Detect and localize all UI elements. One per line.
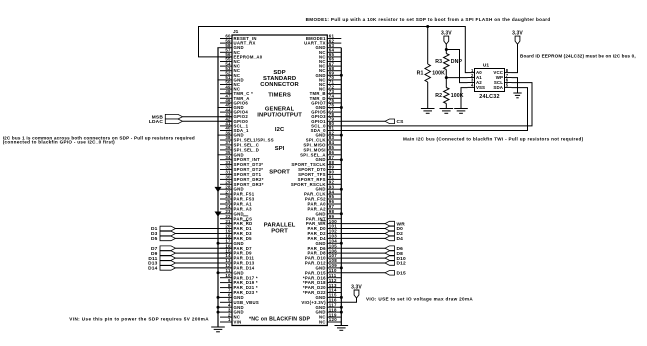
EEPROM pin 8 VCC: [493, 68, 511, 75]
pin 29 SPORT_DR3* (left): [220, 180, 264, 187]
EEPROM pin 3 A2: [468, 78, 483, 85]
off-page flag D4: [385, 236, 403, 242]
ground (right bus): [335, 326, 349, 331]
pin 7 PAR_D23 * (left): [220, 288, 258, 295]
off-page flag D5: [151, 236, 176, 242]
svg-text:100K: 100K: [432, 71, 445, 77]
ground arrow on left GND bus row 38: [215, 212, 222, 217]
pin 82 GND (right): [315, 130, 341, 137]
junction on right GND bus row 22: [340, 134, 343, 137]
pin 86 SPI_SEL_A (right): [300, 150, 341, 157]
pin 119 NC (right): [319, 312, 341, 319]
EEPROM U1 24LC32 body: [475, 62, 505, 100]
pin 23 GND (left): [217, 209, 243, 216]
wire D9 to connector: [176, 252, 233, 254]
pin 112 *PAR_D18 (right): [303, 278, 341, 285]
ground (EEPROM VSS): [454, 109, 468, 114]
svg-text:120: 120: [329, 317, 337, 322]
wire: 3.3V to R3 / A2 branch: [445, 44, 447, 53]
pin 97 PAR_A2 (right): [308, 204, 342, 211]
ground (left bus): [211, 327, 225, 332]
pin 39 GND (left): [217, 130, 243, 137]
pin 1 VIN (left): [220, 317, 242, 324]
junction: R3/R2/A1 node: [445, 76, 448, 79]
pin 106 PAR_D8 (right): [308, 248, 342, 255]
pin 11 GND (left): [217, 268, 243, 275]
pin 38 SPI_SEL1/SPI_SS (left): [220, 135, 274, 142]
pin 103 PAR_D4 (right): [308, 234, 342, 241]
svg-text:CS: CS: [397, 119, 405, 125]
pin 9 PAR_D19 * (left): [220, 278, 258, 285]
pin 13 PAR_D13 (left): [220, 258, 255, 265]
wire MSB to pin 43 GPIO2: [183, 116, 233, 118]
off-page flag D11: [148, 256, 175, 262]
pin 22 PAR_CS (left): [220, 214, 252, 221]
wire D2 to connector: [341, 233, 385, 235]
pin 68 NC (right): [319, 66, 341, 73]
wire D6 to connector: [341, 247, 385, 249]
pin 67 NC (right): [319, 61, 341, 68]
svg-text:BMODE1: Pull up with a 10K res: BMODE1: Pull up with a 10K resistor to s…: [306, 17, 551, 22]
resistor R1 100K: [417, 64, 445, 82]
pin 26 PAR_FS3 (left): [220, 194, 255, 201]
pin 91 SPORT_RFS (right): [298, 175, 342, 182]
off-page flag D8: [385, 251, 403, 257]
off-page flag D10: [385, 256, 406, 262]
wire WR to connector: [341, 223, 385, 225]
pin 58 GND (left): [217, 43, 243, 50]
junction on left GND bus row 44: [217, 242, 220, 245]
pin 111 *PAR_D16 (right): [303, 273, 341, 280]
off-page flag D0: [385, 226, 403, 232]
junction on right GND bus row 57: [340, 306, 343, 309]
svg-text:D12: D12: [397, 261, 407, 267]
svg-text:1: 1: [228, 317, 231, 322]
off-page flag MSB: [152, 114, 183, 120]
off-page flag D13: [148, 261, 175, 267]
svg-text:D4: D4: [397, 236, 404, 242]
pin 50 NC (left): [220, 80, 240, 87]
junction on right GND bus row 55: [340, 296, 343, 299]
pin 10 PAR_D17 * (left): [220, 273, 258, 280]
junction on right GND bus row 9: [340, 74, 343, 77]
pin 45 GND (left): [217, 103, 243, 110]
pin 76 GND (right): [315, 103, 341, 110]
wire: R1 bottom to ground: [427, 82, 429, 109]
junction on right GND bus row 38: [340, 212, 343, 215]
pin 83 SPI_CLK (right): [306, 135, 342, 142]
pin 73 TMR_B (right): [310, 89, 342, 96]
pin 33 SPORT_DT3* (left): [220, 160, 263, 167]
wire D0 to connector: [341, 228, 385, 230]
svg-text:PORT: PORT: [271, 229, 288, 235]
pin 77 GPIO5 (right): [311, 107, 341, 114]
wire D5 to connector: [176, 237, 233, 239]
pin 35 GND (left): [217, 150, 243, 157]
junction on right GND bus row 44: [340, 242, 343, 245]
ground (R1): [421, 109, 435, 114]
pin 56 EEPROM_A0 (left): [220, 52, 263, 59]
pin 8 PAR_D21 * (left): [220, 283, 258, 290]
wire: EEPROM WP to ground: [512, 78, 518, 93]
pin 80 SCL_0 (right): [311, 121, 341, 128]
pin 52 NC (left): [220, 71, 240, 78]
svg-text:CONNECTOR: CONNECTOR: [260, 82, 299, 88]
pin 115 GND (right): [315, 293, 341, 300]
pin 96 PAR_A0 (right): [308, 199, 342, 206]
wire D15 to connector: [341, 272, 385, 274]
wire D14 to connector: [176, 267, 233, 269]
pin 72 NC (right): [319, 84, 341, 91]
connector J1 SDP STANDARD CONNECTOR body: [232, 29, 327, 325]
off-page flag LDAC: [149, 119, 183, 125]
pin 17 GND (left): [217, 239, 243, 246]
pin 30 SPORT_DR2* (left): [220, 175, 264, 182]
svg-text:(connected to blackfin GPIO -: (connected to blackfin GPIO - use I2C_0 …: [3, 140, 115, 145]
pin 101 PAR_D0 (right): [308, 224, 342, 231]
wire: 3.3V to EEPROM VCC: [512, 44, 518, 73]
ground (R2): [440, 109, 454, 114]
svg-text:SPI: SPI: [275, 146, 285, 152]
pin 12 PAR_D14 (left): [220, 263, 255, 270]
wire D1 to connector: [176, 228, 233, 230]
wire D13 to connector: [176, 262, 233, 264]
junction on left GND bus row 57: [217, 306, 220, 309]
svg-text:U1: U1: [483, 62, 489, 68]
svg-text:SDA: SDA: [493, 85, 503, 90]
junction on right GND bus row 16: [340, 106, 343, 109]
pin 2 NC (left): [220, 312, 240, 319]
svg-text:R3: R3: [435, 59, 442, 65]
pin 36 SPI_SEL_D (left): [220, 145, 259, 152]
off-page flag CS: [385, 119, 404, 125]
wire D11 to connector: [176, 257, 233, 259]
ground arrow on left GND bus row 33: [215, 187, 222, 192]
EEPROM pin 7 WP: [496, 73, 512, 80]
off-page flag D3: [151, 231, 176, 237]
off-page flag D12: [385, 261, 406, 267]
pin 65 NC (right): [319, 52, 341, 59]
svg-text:Main I2C bus (Connected to bla: Main I2C bus (Connected to blackfin TWI …: [403, 137, 584, 142]
EEPROM pin 1 A0: [468, 68, 483, 75]
pin 90 SPORT_TFS (right): [298, 170, 341, 177]
pin 60 RESET_IN (left): [220, 34, 257, 41]
pin 53 NC (left): [220, 66, 240, 73]
wire: 3.3V node to EEPROM A2: [446, 50, 467, 83]
pin 59 UART_RX (left): [220, 38, 256, 45]
svg-text:R1: R1: [417, 71, 424, 77]
off-page flag D6: [385, 246, 403, 252]
pin 20 PAR_D1 (left): [220, 224, 252, 231]
pin 75 GPIO7 (right): [311, 98, 341, 105]
pin 100 PAR_WR (right): [306, 219, 341, 226]
pin 44 GPIO4 (left): [220, 107, 248, 114]
svg-text:24LC32: 24LC32: [479, 94, 499, 100]
wire LDAC to pin 42 GPIO0: [183, 120, 233, 122]
pin 88 SPORT_TSCLK (right): [291, 160, 341, 167]
pin 48 TMR_C * (left): [220, 89, 253, 96]
svg-text:VIN: Use this pin to power the: VIN: Use this pin to power the SDP requi…: [69, 316, 209, 321]
pin 31 SPORT_DT1 (left): [220, 170, 262, 177]
pin 25 PAR_A1 (left): [220, 199, 252, 206]
junction on right GND bus row 58: [340, 311, 343, 314]
junction on left GND bus row 58: [217, 311, 220, 314]
pin 63 GND (right): [315, 43, 341, 50]
pin 95 PAR_FS2 (right): [305, 194, 341, 201]
power 3.3V (divider): [441, 31, 452, 45]
pin 49 NC (left): [220, 84, 240, 91]
pin 108 PAR_D12 (right): [305, 258, 341, 265]
junction on right GND bus row 27: [340, 158, 343, 161]
pin 47 TMR_A (left): [220, 94, 250, 101]
pin 51 GND (left): [217, 75, 243, 82]
pin 93 GND (right): [315, 184, 341, 191]
pin 89 SPORT_DT0 (right): [298, 165, 341, 172]
svg-text:VIO: USE to set IO voltage max: VIO: USE to set IO voltage max draw 20mA: [366, 297, 473, 302]
wire: right GND bus: [340, 48, 342, 326]
off-page flag D2: [385, 231, 403, 237]
svg-text:TIMERS: TIMERS: [268, 93, 291, 99]
pin 27 PAR_FS1 (left): [220, 189, 255, 196]
pin 98 GND (right): [315, 209, 341, 216]
svg-text:D14: D14: [148, 266, 158, 272]
svg-text:Board ID EEPROM (24LC32) must: Board ID EEPROM (24LC32) must be on I2C …: [520, 53, 636, 58]
junction: R1 tap on EEPROM_A0 rail: [426, 25, 429, 28]
wire: left GND bus: [217, 48, 219, 327]
resistor R3 DNP: [435, 54, 462, 70]
pin 118 GND (right): [315, 307, 341, 314]
pin 71 NC (right): [319, 80, 341, 87]
pin 21 PAR_RD (left): [220, 219, 252, 226]
pin 18 PAR_D5 (left): [220, 234, 252, 241]
pin 34 SPORT_INT (left): [220, 155, 260, 162]
svg-text:J1: J1: [233, 29, 239, 35]
pin 5 USB_VBUS (left): [220, 298, 259, 305]
pin 74 TMR_D (right): [310, 94, 342, 101]
pin 61 BMODE1 (right): [306, 34, 341, 41]
off-page flag D15: [385, 271, 406, 277]
EEPROM pin 6 SCL: [494, 78, 512, 85]
svg-text:I2C: I2C: [275, 127, 285, 133]
junction: 3.3V node: [445, 48, 448, 51]
off-page flag WR: [385, 221, 405, 227]
wire D12 to connector: [341, 262, 385, 264]
ground (EEPROM WP): [513, 93, 521, 98]
pin 85 SPI_MOSI (right): [303, 145, 341, 152]
wire D8 to connector: [341, 252, 385, 254]
svg-text:100K: 100K: [451, 93, 464, 99]
pin 99 PAR_INT (right): [306, 214, 341, 221]
pin 64 NC (right): [319, 48, 341, 55]
wire: R2 bottom to ground: [445, 104, 447, 109]
pin 117 GND (right): [315, 302, 341, 309]
svg-text:LDAC: LDAC: [149, 119, 163, 125]
pin 28 GND (left): [217, 184, 243, 191]
pin 57 NC (left): [220, 48, 240, 55]
pin 46 GPIO6 (left): [220, 98, 248, 105]
pin 120 NC (right): [319, 317, 341, 324]
pin 37 SPI_SEL_C (left): [220, 140, 259, 147]
svg-text:SPORT: SPORT: [269, 170, 290, 176]
power 3.3V (VIO): [351, 285, 362, 299]
wire D4 to connector: [341, 237, 385, 239]
off-page flag D1: [151, 226, 176, 232]
pin 81 SDA_0 (right): [311, 126, 342, 133]
pin 14 PAR_D11 (left): [220, 253, 255, 260]
pin 104 GND (right): [315, 239, 341, 246]
pin 114 *PAR_D22 (right): [303, 288, 341, 295]
svg-text:*NC on BLACKFIN SDP: *NC on BLACKFIN SDP: [249, 316, 310, 322]
pin 84 SPI_MISO (right): [303, 140, 341, 147]
junction on right GND bus row 49: [340, 266, 343, 269]
pin 87 GND (right): [315, 155, 341, 162]
EEPROM pin 2 A1: [468, 73, 483, 80]
junction on left GND bus row 55: [217, 296, 220, 299]
pin 69 GND (right): [315, 71, 341, 78]
junction on right GND bus row 33: [340, 188, 343, 191]
off-page flag D14: [148, 266, 175, 272]
wire D10 to connector: [341, 257, 385, 259]
pin 78 GPIO3 (right): [311, 112, 341, 119]
pin 94 PAR_CLK (right): [304, 189, 341, 196]
svg-text:INPUT/OUTPUT: INPUT/OUTPUT: [257, 113, 302, 119]
pin 4 GND (left): [217, 302, 243, 309]
wire: R1 top to rail: [427, 27, 429, 65]
pin 55 NC (left): [220, 57, 240, 64]
svg-text:D5: D5: [151, 236, 158, 242]
pin 105 PAR_D6 (right): [308, 243, 342, 250]
svg-text:R2: R2: [435, 93, 442, 99]
svg-text:DNP: DNP: [451, 59, 463, 65]
pin 41 SCL_1 (left): [220, 121, 249, 128]
pin 110 PAR_D15 (right): [305, 268, 341, 275]
svg-text:D15: D15: [397, 271, 407, 277]
wire: EEPROM VSS to ground: [461, 88, 468, 109]
wire 3.3V to pin 116 VIO: [341, 298, 356, 302]
pin 19 PAR_D3 (left): [220, 229, 252, 236]
wire: SDA_0 net pin 81 to EEPROM SDA: [341, 88, 527, 131]
pin 70 NC (right): [319, 75, 341, 82]
pin 6 GND (left): [217, 293, 243, 300]
pin 42 GPIO0 (left): [220, 117, 248, 124]
wire D3 to connector: [176, 233, 233, 235]
pin 92 SPORT_RSCLK (right): [291, 180, 341, 187]
pin 32 SPORT_DT2* (left): [220, 165, 263, 172]
pin 113 *PAR_D20 (right): [303, 283, 341, 290]
pin 43 GPIO2 (left): [220, 112, 248, 119]
wire D7 to connector: [176, 247, 233, 249]
wire: junction to EEPROM A1: [446, 77, 467, 79]
wire: R3 bottom to junction: [445, 70, 447, 88]
pin 79 GPIO1 (right): [311, 117, 341, 124]
pin 40 SDA_1 (left): [220, 126, 249, 133]
resistor R2 100K: [435, 88, 463, 104]
pin 107 PAR_D10 (right): [305, 253, 341, 260]
wire: EEPROM_A0 net from pin 56 up and across top: [199, 27, 468, 73]
junction on left GND bus row 50: [217, 271, 220, 274]
pin 62 UART_TX (right): [304, 38, 341, 45]
off-page flag D7: [151, 246, 176, 252]
power 3.3V (EEPROM VCC): [512, 31, 523, 45]
pin 109 GND (right): [315, 263, 341, 270]
pin 116 VIO(+3.3V) (right): [301, 298, 341, 305]
pin 24 PAR_A3 (left): [220, 204, 252, 211]
svg-text:VIN: VIN: [234, 320, 242, 325]
off-page flag D9: [151, 251, 176, 257]
pin 16 PAR_D7 (left): [220, 243, 252, 250]
svg-text:NC: NC: [319, 320, 326, 325]
pin 66 NC (right): [319, 57, 341, 64]
pin 15 PAR_D9 (left): [220, 248, 252, 255]
EEPROM pin 5 SDA: [493, 83, 511, 90]
svg-text:VSS: VSS: [476, 85, 485, 90]
pin 3 GND (left): [217, 307, 243, 314]
EEPROM pin 4 VSS: [468, 83, 486, 90]
pin 54 NC (left): [220, 61, 240, 68]
wire: SCL_0 net pin 80 to EEPROM SCL: [341, 83, 532, 126]
pin 102 PAR_D2 (right): [308, 229, 342, 236]
wire CS to pin 79 GPIO1: [341, 120, 385, 122]
